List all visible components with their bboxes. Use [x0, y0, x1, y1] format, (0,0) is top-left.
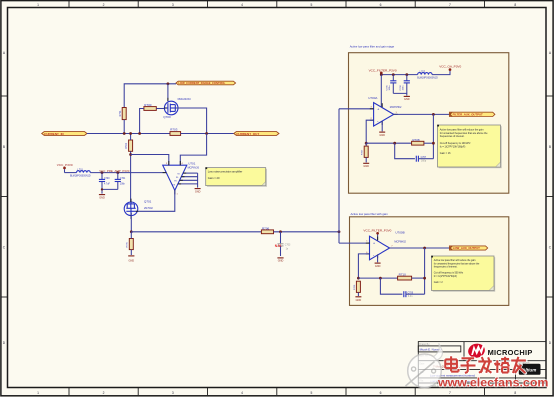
- svg-text:Q700: Q700: [163, 115, 171, 119]
- junction source node: [130, 230, 133, 233]
- svg-text:CURRENT_IN: CURRENT_IN: [44, 132, 64, 136]
- wire: R701 to main line: [123, 120, 125, 134]
- svg-text:GND: GND: [195, 191, 201, 194]
- port CURRENT_OUT: [234, 132, 279, 136]
- svg-text:Cut-off frequency is 500 kHz: Cut-off frequency is 500 kHz: [434, 272, 464, 275]
- resistor R708: [412, 138, 424, 145]
- svg-text:C703: C703: [285, 244, 291, 246]
- wire: feedback row bottom: [358, 277, 397, 279]
- wire: U700A V- to gnd: [381, 121, 383, 131]
- svg-text:2: 2: [103, 3, 105, 7]
- power port VCC_P3V0: [57, 163, 73, 173]
- wire: U700A -in loop: [366, 120, 373, 143]
- junction fb/column: [432, 142, 435, 145]
- svg-text:C709: C709: [408, 292, 414, 294]
- region box: active low pass filter (top right): [349, 44, 509, 193]
- svg-text:R707: R707: [362, 149, 364, 155]
- svg-text:4.7uF: 4.7uF: [104, 183, 110, 185]
- wire: U701 rg/en stubs: [178, 173, 198, 188]
- svg-text:frequencies of interest.: frequencies of interest.: [434, 266, 458, 269]
- wire: node to U701 -in: [131, 155, 169, 166]
- junction R700 leg/main: [138, 132, 141, 135]
- junction C701: [116, 171, 119, 174]
- svg-text:BLM18PG600SN1D: BLM18PG600SN1D: [70, 176, 91, 178]
- svg-text:7: 7: [449, 391, 451, 395]
- junction output/feedback bottom: [423, 247, 426, 250]
- power port VCC_OA_P3V0: [432, 64, 461, 74]
- svg-text:C700: C700: [104, 178, 110, 180]
- svg-text:R706: R706: [262, 226, 270, 230]
- svg-text:VCC_P3V0: VCC_P3V0: [57, 163, 73, 167]
- wire: C707 branch: [395, 143, 415, 159]
- junction C703 tap: [279, 230, 282, 233]
- wire: caps tie to ground: [393, 93, 407, 95]
- resistor R706: [261, 226, 273, 233]
- transistor Q701 (N-MOSFET): [124, 200, 153, 216]
- svg-text:1: 1: [37, 3, 39, 7]
- svg-text:MCP6V26: MCP6V26: [188, 167, 200, 170]
- op-amp U700B: [366, 231, 406, 260]
- svg-text:C707: C707: [421, 157, 427, 159]
- svg-text:FILTER_AUX_OUTPUT: FILTER_AUX_OUTPUT: [453, 113, 483, 117]
- svg-text:7: 7: [449, 3, 451, 7]
- svg-text:Gain = 16: Gain = 16: [440, 152, 451, 155]
- svg-text:4: 4: [241, 3, 243, 7]
- svg-text:VCC_OA_P3V0: VCC_OA_P3V0: [439, 64, 461, 68]
- net label VCC_PRE_AMP_P3V0: [99, 169, 130, 173]
- wire: R710 to column: [412, 277, 425, 279]
- svg-text:6: 6: [380, 391, 382, 395]
- op-amp U700A: [368, 96, 402, 126]
- junction out node: [205, 132, 208, 135]
- ground (R707): [363, 163, 369, 168]
- wire: into top box: [339, 108, 374, 110]
- svg-text:2: 2: [103, 391, 105, 395]
- svg-text:8: 8: [514, 391, 516, 395]
- svg-text:C701: C701: [120, 178, 126, 180]
- wire: gate drop to Q700: [167, 84, 169, 102]
- wire: R702 bottom / drain column: [130, 151, 132, 202]
- region box: active low pass filter (bottom right): [350, 212, 509, 305]
- pin leads Q701 (dark): [131, 199, 138, 219]
- svg-text:GND: GND: [99, 197, 105, 200]
- svg-text:100n: 100n: [120, 183, 126, 185]
- svg-text:R700: R700: [144, 103, 152, 107]
- svg-text:GND: GND: [363, 165, 369, 168]
- wire: R700 to Q700 source: [156, 108, 164, 110]
- junction gate node: [167, 82, 170, 85]
- svg-text:MCP6H02: MCP6H02: [390, 106, 402, 109]
- svg-text:DMG3415U: DMG3415U: [178, 98, 191, 101]
- junction feedback node: [129, 153, 132, 156]
- wire: Q701 source down: [130, 213, 132, 232]
- resistor R710: [398, 273, 412, 280]
- resistor R709: [354, 281, 361, 296]
- capacitor C701: [115, 173, 126, 190]
- wire: feedback column: [432, 114, 434, 158]
- capacitor C700: [99, 173, 111, 190]
- junction R701/main: [123, 132, 126, 135]
- svg-text:5: 5: [310, 3, 312, 7]
- svg-text:www.elecfans.com: www.elecfans.com: [437, 375, 548, 389]
- svg-text:8: 8: [514, 3, 516, 7]
- wire: R702 top: [130, 134, 132, 141]
- ground (R705): [128, 256, 134, 263]
- svg-text:Low noise precision amplifier: Low noise precision amplifier: [208, 169, 243, 173]
- power port VCC_FILTER_P3V0 (top box): [369, 68, 397, 74]
- wire: U700A V+ pin: [380, 75, 382, 107]
- svg-text:L701: L701: [77, 168, 83, 171]
- resistor R702: [125, 140, 132, 151]
- ground (U701): [195, 189, 201, 194]
- svg-text:for unwanted frequencies that: for unwanted frequencies that are above …: [434, 262, 480, 265]
- svg-text:R703: R703: [170, 128, 178, 132]
- ground (filter caps): [404, 96, 410, 101]
- port LOW_CURRENT_RANGE_CONTROL: [176, 81, 236, 85]
- resistor R707: [362, 143, 369, 162]
- ground (R709): [355, 297, 361, 302]
- wire: R705 legs: [130, 232, 132, 255]
- wire: R703 to CURRENT_OUT: [181, 133, 234, 135]
- svg-text:Gain = 20: Gain = 20: [208, 176, 220, 180]
- wire: feedback row: [366, 142, 411, 144]
- junction C706: [405, 73, 408, 76]
- svg-text:GND: GND: [379, 134, 385, 137]
- svg-text:GND: GND: [356, 299, 362, 302]
- capacitor C707: [416, 156, 433, 163]
- svg-text:CURRENT_OUT: CURRENT_OUT: [236, 132, 259, 136]
- wire: R700 left leg: [140, 109, 144, 134]
- svg-text:GND: GND: [278, 260, 284, 263]
- svg-text:fc = 1/(2*Pi*10k*33pF): fc = 1/(2*Pi*10k*33pF): [434, 276, 457, 278]
- ground (C703): [277, 258, 283, 263]
- svg-text:U701: U701: [188, 162, 196, 166]
- svg-text:2N7002: 2N7002: [144, 207, 153, 210]
- resistor R700: [144, 103, 156, 111]
- capacitor C709: [404, 291, 425, 298]
- wire: feedback column bottom: [424, 248, 426, 294]
- port FILTER_AUX_OUTPUT: [449, 112, 495, 116]
- junction supply drop: [380, 73, 383, 76]
- junction C700: [101, 171, 104, 174]
- svg-text:MICROCHIP: MICROCHIP: [488, 348, 533, 357]
- svg-text:1: 1: [37, 391, 39, 395]
- junction caps gnd: [101, 188, 103, 190]
- svg-text:R708: R708: [412, 138, 420, 142]
- junction split node: [338, 230, 341, 233]
- svg-text:frequencies of interest.: frequencies of interest.: [440, 135, 465, 138]
- capacitor C706: [400, 75, 410, 94]
- logo Altium: [519, 361, 541, 375]
- svg-text:Active low pass filter with ga: Active low pass filter with gain: [351, 212, 389, 216]
- pin leads U700A (dark): [370, 103, 398, 125]
- wire: R708 to column: [424, 142, 434, 144]
- resistor R701: [119, 108, 126, 120]
- svg-text:MCP6H02: MCP6H02: [394, 241, 406, 244]
- svg-text:L702: L702: [420, 70, 426, 73]
- svg-text:6: 6: [380, 3, 382, 7]
- ground (U700A): [379, 132, 385, 137]
- watermark chinese text: [445, 356, 526, 373]
- power port VCC_FILTER_P3V0 (bottom box): [363, 228, 391, 240]
- svg-text:R705: R705: [127, 241, 129, 247]
- capacitor C703 (not fitted): [275, 232, 291, 256]
- pin leads U701 (dark): [163, 161, 187, 194]
- ground (U700B): [375, 263, 381, 268]
- svg-text:R710: R710: [399, 273, 407, 277]
- wire: caps bottom tie: [102, 189, 118, 193]
- wire: filter rail: [381, 74, 417, 76]
- wire: C709 branch: [380, 278, 402, 294]
- inductor L702: [417, 70, 438, 79]
- svg-text:100n: 100n: [389, 85, 391, 91]
- svg-text:LOW_AUX_OUTPUT: LOW_AUX_OUTPUT: [453, 246, 480, 250]
- svg-text:VCC_FILTER_P3V0: VCC_FILTER_P3V0: [363, 228, 391, 232]
- svg-text:U700B: U700B: [395, 231, 404, 235]
- wire: U700B -in loop: [358, 254, 369, 278]
- wire: sense branch to U701 +in: [180, 134, 206, 166]
- svg-text:R702: R702: [125, 142, 128, 149]
- resistor R705: [127, 239, 134, 250]
- svg-text:fc = 1/(2*Pi*10k*160pF): fc = 1/(2*Pi*10k*160pF): [440, 145, 466, 148]
- transistor Q700 (P-MOSFET): [163, 98, 191, 119]
- junction fb node left: [365, 142, 368, 145]
- wire: U700B V- to gnd: [377, 255, 379, 263]
- svg-text:GND: GND: [375, 265, 381, 268]
- svg-text:N.M.: N.M.: [275, 244, 282, 248]
- svg-text:100n: 100n: [403, 85, 405, 91]
- svg-text:5: 5: [310, 391, 312, 395]
- note: bottom filter description: [431, 256, 495, 292]
- junction R702/main: [129, 132, 132, 135]
- wire: inductor to opamp supply pin: [90, 172, 166, 174]
- junction fb/column bottom: [423, 277, 426, 280]
- wire: long output run: [131, 231, 261, 233]
- wire: CURRENT_IN main line: [87, 133, 170, 135]
- wire: U700B output: [390, 247, 450, 249]
- svg-text:Active low pass filter will re: Active low pass filter will reduce the g…: [434, 259, 476, 262]
- svg-text:Active low pass filter and gai: Active low pass filter and gain stage: [350, 44, 395, 48]
- svg-text:3: 3: [172, 391, 174, 395]
- wire: U700A output: [394, 113, 450, 115]
- svg-text:VCC_FILTER_P3V0: VCC_FILTER_P3V0: [369, 68, 397, 72]
- svg-text:Q701: Q701: [144, 200, 152, 204]
- svg-text:3.3n: 3.3n: [408, 296, 413, 298]
- resistor R703: [170, 128, 181, 136]
- svg-text:R709: R709: [354, 284, 356, 290]
- inductor L701: [70, 168, 91, 177]
- junction C707 tap: [393, 142, 396, 145]
- svg-text:R701: R701: [119, 110, 122, 117]
- wire: gate control top run: [124, 84, 176, 108]
- ground (caps): [99, 195, 105, 200]
- svg-text:LOW_CURRENT_RANGE_CONTROL: LOW_CURRENT_RANGE_CONTROL: [178, 81, 225, 85]
- wire: Q700 drain down to out node: [175, 108, 206, 134]
- svg-text:U700A: U700A: [368, 96, 377, 100]
- svg-text:3: 3: [172, 3, 174, 7]
- note: top filter description: [437, 125, 502, 169]
- port CURRENT_IN: [42, 132, 87, 136]
- pin leads Q700 (dark): [164, 98, 178, 108]
- svg-text:160p: 160p: [421, 161, 427, 163]
- logo Microchip: [467, 342, 533, 360]
- title block frame: [418, 342, 546, 388]
- svg-text:Drawn By:: Drawn By:: [419, 343, 430, 346]
- watermark elecfans logo circle: [406, 343, 443, 387]
- junction output/feedback: [432, 113, 435, 116]
- capacitor C705: [387, 75, 397, 94]
- junction C709 tap: [379, 277, 382, 280]
- port LOW_AUX_OUTPUT: [449, 246, 487, 250]
- title block texts: [419, 343, 526, 387]
- wire: vertical split to both filter stages: [338, 109, 340, 243]
- svg-text:VCC_PRE_AMP_P3V0: VCC_PRE_AMP_P3V0: [99, 169, 130, 173]
- svg-text:GND: GND: [404, 98, 410, 101]
- wire: into bottom box: [339, 242, 370, 244]
- op-amp U701: [163, 162, 200, 196]
- svg-text:4: 4: [241, 391, 243, 395]
- wire: U701 output to Q701 gate: [138, 190, 175, 211]
- svg-text:Gain = 2: Gain = 2: [434, 282, 444, 284]
- note: low noise precision amplifier: [205, 167, 267, 187]
- pin leads U700B (dark): [366, 237, 394, 259]
- junction fb left bottom: [357, 277, 360, 280]
- wire: Q701 gate stub: [136, 210, 139, 212]
- wire: R706 to boxes: [274, 231, 340, 233]
- svg-text:GND: GND: [129, 259, 135, 262]
- svg-text:BLM18PG600SN1D: BLM18PG600SN1D: [417, 77, 438, 79]
- wire: VCC rail to inductor: [65, 172, 77, 174]
- junction C705: [392, 73, 395, 76]
